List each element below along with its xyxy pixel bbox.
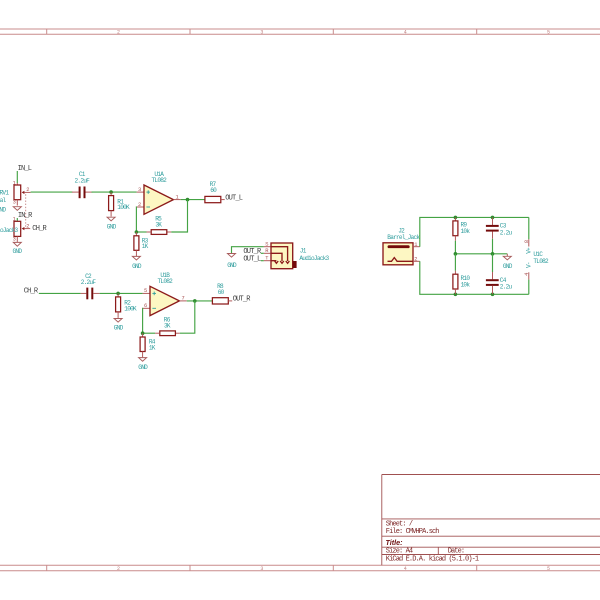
audio jack J1 [264, 241, 330, 268]
svg-text:GND: GND [107, 223, 117, 230]
label CH_R at C2 [24, 288, 39, 296]
ground under RV1 gang B [13, 242, 23, 255]
svg-text:GND: GND [114, 325, 124, 332]
svg-text:3: 3 [13, 200, 16, 206]
svg-text:TL082: TL082 [533, 258, 549, 265]
capacitor C3 [486, 217, 513, 238]
label OUT_L at J1 [243, 255, 263, 263]
resistor R7 [205, 181, 225, 203]
node junction mid rail at R9/R10 [454, 252, 458, 256]
resistor R2 [116, 293, 137, 318]
node junction mid rail at C3/C4 [491, 252, 495, 256]
svg-text:Title:: Title: [386, 538, 404, 547]
wire C2 to U1B pin5 [100, 292, 143, 294]
svg-text:2.2u: 2.2u [500, 229, 513, 236]
ground under R1 [107, 217, 117, 230]
svg-text:100K: 100K [117, 204, 130, 211]
resistor R4 [140, 333, 156, 357]
ground at mid rail [503, 254, 513, 270]
svg-text:3: 3 [13, 236, 16, 242]
label OUT_R at J1 [243, 248, 263, 256]
ground under R4 [138, 358, 148, 371]
svg-text:2: 2 [26, 223, 29, 229]
svg-text:2.2u: 2.2u [500, 284, 513, 291]
wire J2 pin1 up to V+ rail [420, 217, 529, 246]
svg-text:Date:: Date: [448, 548, 465, 556]
wire output junction down to R6 [180, 301, 195, 333]
capacitor C1 [72, 171, 93, 198]
svg-text:Size: A4: Size: A4 [386, 548, 413, 556]
svg-text:GND: GND [132, 263, 142, 270]
svg-text:2: 2 [414, 257, 417, 263]
svg-text:AudioJack3: AudioJack3 [299, 255, 329, 262]
node junction at R1 top [109, 190, 113, 194]
wire J2 pin2 down to V- rail [420, 261, 529, 294]
svg-text:RV1: RV1 [0, 189, 9, 196]
wire J1 sleeve to ground [232, 247, 264, 253]
wire IN_R to RV1 gang B [16, 218, 18, 221]
wire RV1 wiper to C1 [31, 191, 73, 193]
node junction V+ rail at R9 [454, 216, 458, 220]
wire R9 to mid rail [454, 241, 456, 254]
svg-text:Barrel_Jack: Barrel_Jack [387, 234, 420, 241]
label CH_R at pot wiper [32, 225, 47, 233]
ground under R2 [114, 319, 124, 332]
svg-text:CH_R: CH_R [32, 225, 47, 233]
capacitor C4 [486, 254, 513, 294]
svg-text:TL082: TL082 [152, 177, 168, 184]
svg-text:AudioJack3: AudioJack3 [0, 227, 18, 234]
wire C1 to U1A pin3 [92, 191, 137, 193]
wire C3 to mid rail [492, 239, 494, 254]
resistor R5 [147, 216, 172, 235]
op-amp U1B [143, 272, 187, 315]
wire U1A output to R7 [181, 199, 205, 201]
svg-text:2.2uF: 2.2uF [75, 177, 91, 184]
svg-text:KiCad E.D.A. kicad (5.1.0)-1: KiCad E.D.A. kicad (5.1.0)-1 [386, 556, 479, 564]
potentiometer RV1 gang B [0, 217, 30, 243]
wire IN_L to RV1 pin1 [16, 171, 18, 183]
op-amp U1C power pins [524, 217, 549, 294]
svg-text:IN_L: IN_L [18, 165, 32, 173]
svg-text:4: 4 [404, 29, 407, 35]
label IN_L [18, 165, 32, 173]
svg-text:2: 2 [117, 566, 120, 572]
svg-text:S: S [265, 241, 268, 247]
svg-text:1: 1 [13, 180, 16, 186]
op-amp U1A [137, 171, 181, 214]
resistor R9 [453, 217, 470, 240]
svg-text:V-: V- [526, 262, 533, 268]
svg-text:2: 2 [117, 29, 120, 35]
svg-text:10k: 10k [461, 282, 471, 289]
svg-text:10k: 10k [461, 228, 471, 235]
svg-text:100K: 100K [124, 306, 137, 313]
node junction V- rail at R10 [454, 293, 458, 297]
wire U1A pin2 feedback down [135, 207, 137, 232]
label OUT_R at R8 [233, 296, 252, 304]
node junction at U1B output [193, 299, 197, 303]
dashed mechanical link between pot gangs [25, 194, 27, 227]
potentiometer RV1 gang A [0, 180, 31, 205]
resistor R3 [134, 232, 149, 256]
resistor R1 [109, 192, 130, 217]
node junction at R2 top [116, 292, 120, 296]
svg-text:OUT_L: OUT_L [243, 255, 261, 263]
wire output junction down to R5 [171, 200, 187, 232]
svg-text:File: CMVHPA.sch: File: CMVHPA.sch [386, 528, 440, 536]
ground under R3 [132, 256, 142, 269]
svg-text:OUT_L: OUT_L [225, 194, 243, 202]
label IN_R [18, 212, 33, 220]
svg-text:2.2uF: 2.2uF [81, 279, 97, 286]
capacitor C2 [81, 273, 100, 299]
svg-text:4: 4 [524, 273, 530, 276]
resistor R8 [212, 283, 232, 304]
node junction V+ rail at C3 [491, 216, 495, 220]
node junction V- rail at C4 [491, 293, 495, 297]
wire R6 to R4 junction [143, 332, 156, 334]
wire U1B pin6 feedback down [142, 308, 144, 333]
svg-text:CH_R: CH_R [24, 288, 39, 296]
svg-text:OUT_R: OUT_R [233, 296, 252, 304]
resistor R10 [453, 254, 470, 294]
ground under RV1 gang A [0, 207, 21, 214]
svg-text:1: 1 [414, 242, 417, 248]
svg-text:GND: GND [138, 364, 148, 371]
svg-text:5: 5 [547, 566, 550, 572]
node junction at U1A output [186, 198, 190, 202]
svg-text:IN_R: IN_R [18, 212, 33, 220]
svg-text:1: 1 [13, 217, 16, 223]
svg-text:4: 4 [404, 566, 407, 572]
node junction feedback [135, 230, 139, 234]
node junction feedback B [141, 331, 145, 335]
label OUT_L at R7 [225, 194, 243, 202]
wire mid rail [455, 253, 507, 255]
svg-text:GND: GND [503, 263, 513, 270]
wire U1B output to R8 [187, 300, 213, 302]
wire CH_R to C2 [39, 292, 81, 294]
wire R5 to R3 junction [136, 231, 146, 233]
svg-text:2: 2 [26, 187, 29, 193]
ground at J1 sleeve [227, 254, 237, 270]
svg-text:3: 3 [260, 29, 263, 35]
barrel jack J2 [383, 227, 420, 264]
svg-text:GND: GND [13, 248, 23, 255]
svg-text:TL082: TL082 [158, 278, 174, 285]
resistor R6 [155, 317, 180, 336]
svg-text:3: 3 [260, 566, 263, 572]
svg-text:GND: GND [227, 262, 237, 269]
svg-text:5: 5 [547, 29, 550, 35]
